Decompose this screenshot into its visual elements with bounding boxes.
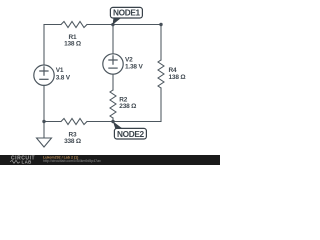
svg-text:NODE2: NODE2 [117,129,145,139]
svg-text:R4: R4 [169,67,177,74]
svg-text:1.38 V: 1.38 V [125,63,143,70]
svg-text:LAB: LAB [22,159,32,164]
svg-text:V1: V1 [56,67,64,74]
svg-text:http://circuitlab.com/c/54km9d: http://circuitlab.com/c/54km9d5p47ax [43,159,101,163]
svg-text:238 Ω: 238 Ω [119,103,136,110]
svg-text:138 Ω: 138 Ω [64,40,81,47]
svg-text:3.8 V: 3.8 V [56,74,71,81]
svg-text:138 Ω: 138 Ω [169,74,186,81]
svg-text:338 Ω: 338 Ω [64,138,81,145]
svg-text:NODE1: NODE1 [113,8,141,18]
svg-text:V2: V2 [125,56,133,63]
